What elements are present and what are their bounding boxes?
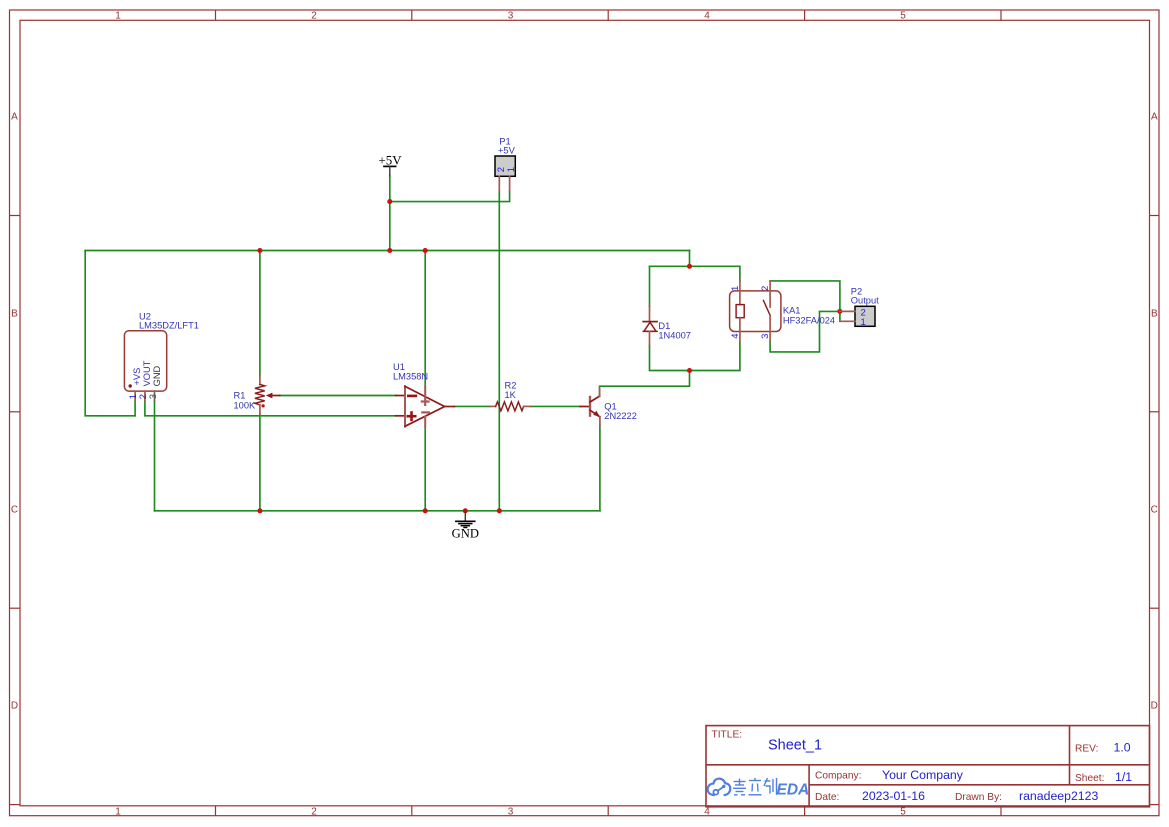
U1 non-inverting input pin (396, 415, 405, 417)
KA1 pin 4 (coil) (739, 318, 741, 342)
svg-text:Output: Output (851, 295, 879, 305)
svg-text:Q1: Q1 (604, 401, 616, 411)
KA1 pin 2 (contact) (769, 281, 771, 307)
junction R1 top bus (257, 248, 262, 253)
svg-text:B: B (1151, 309, 1158, 320)
wire relay pin3 loop (770, 311, 840, 352)
svg-text:2N2222: 2N2222 (604, 411, 637, 421)
P1 pin 1 (509, 176, 511, 191)
potentiometer R1 100K (234, 375, 280, 414)
svg-text:1: 1 (115, 11, 121, 22)
sensor U2 LM35DZ/LFT1 (124, 311, 199, 401)
wire Q1 collector to relay junction (600, 371, 690, 397)
svg-text:GND: GND (452, 526, 479, 540)
junction GND rail (463, 508, 468, 513)
svg-text:5: 5 (900, 11, 906, 22)
R1 zigzag body (255, 385, 265, 405)
KA1 body outline (730, 291, 781, 332)
wire op-amp output to R2 (454, 405, 490, 407)
svg-text:Date:: Date: (815, 792, 839, 803)
R2 zigzag body (496, 402, 524, 411)
svg-text:4: 4 (704, 807, 710, 818)
KA1 switch blade (763, 300, 770, 315)
wire P1 pin2 to ground rail (498, 191, 500, 511)
junction relay bottom bar (687, 368, 692, 373)
U1 plus input marker (408, 413, 415, 420)
junction +5V bus (387, 248, 392, 253)
svg-text:Sheet:: Sheet: (1075, 773, 1104, 784)
svg-text:D: D (1151, 701, 1158, 712)
ground GND symbol (452, 511, 479, 540)
Q1 base bar (589, 397, 591, 416)
wire +5V to P1 pin1 (390, 191, 510, 201)
svg-text:+5V: +5V (498, 145, 516, 155)
svg-text:A: A (1151, 112, 1158, 123)
svg-text:REV:: REV: (1075, 744, 1098, 755)
wire +5V bus horizontal (85, 250, 689, 252)
U1 triangle body (404, 386, 406, 426)
relay KA1 HF32FA/024 (730, 281, 836, 341)
svg-text:A: A (11, 112, 18, 123)
svg-text:+VS: +VS (132, 368, 142, 386)
wire op-amp V- to rail (424, 426, 426, 511)
Q1 emitter pin (599, 417, 601, 426)
svg-text:Sheet_1: Sheet_1 (768, 738, 822, 754)
svg-text:EDA: EDA (777, 782, 810, 799)
+5V bar (384, 165, 396, 167)
wire R1 wiper to op-amp minus input (280, 395, 396, 397)
svg-text:ranadeep2123: ranadeep2123 (1019, 789, 1098, 803)
wire diode-relay top bar right (690, 266, 740, 281)
svg-text:+5V: +5V (378, 152, 402, 167)
wire R1 bottom to rail (259, 415, 261, 511)
svg-text:3: 3 (508, 11, 514, 22)
svg-text:4: 4 (730, 334, 741, 339)
P1 pin 2 (498, 176, 500, 191)
U1 minus input marker (408, 395, 416, 398)
svg-text:U1: U1 (393, 362, 405, 372)
U1 V- power pin (424, 417, 426, 427)
svg-text:2: 2 (311, 807, 317, 818)
title block (706, 726, 1150, 807)
U1 output pin (445, 406, 455, 408)
junction P1 pin2 rail (497, 508, 502, 513)
svg-text:C: C (11, 505, 18, 516)
svg-text:R1: R1 (234, 390, 246, 400)
wire +5V symbol drop (389, 176, 391, 251)
svg-text:3: 3 (508, 807, 514, 818)
KA1 pin 1 (coil) (739, 281, 741, 305)
wire Q1 emitter to rail (599, 426, 601, 511)
R1 wiper arrow (266, 393, 273, 399)
svg-text:1N4007: 1N4007 (658, 331, 691, 341)
wire D1 bottom bar (650, 341, 740, 370)
P2 pin 2 (840, 310, 855, 312)
logo JLCEDA (708, 779, 731, 795)
svg-text:Drawn By:: Drawn By: (955, 792, 1002, 803)
wire U2 pin3 to ground rail (154, 401, 156, 511)
R1 pin dot (262, 404, 265, 407)
svg-text:2: 2 (760, 286, 771, 291)
svg-text:KA1: KA1 (783, 306, 801, 316)
U2 body (124, 331, 166, 391)
wire U2 pin2 to op-amp plus input (145, 401, 396, 416)
svg-text:1K: 1K (505, 390, 517, 400)
junction +5V link (387, 199, 392, 204)
wire left rail vertical (85, 251, 135, 416)
wire ground rail horizontal (155, 510, 600, 512)
U2 pin 2 (VOUT) (144, 391, 146, 401)
wire D1 top (649, 266, 651, 306)
svg-text:D: D (11, 701, 18, 712)
P2 pin 1 (840, 320, 855, 322)
U1 inverting input pin (396, 395, 405, 397)
svg-text:1: 1 (861, 317, 866, 328)
wire U2 pin1 drop (134, 401, 136, 416)
P2 body (855, 306, 875, 326)
junction op-amp V+ bus (423, 248, 428, 253)
wire bus drop to diode-relay top bar (650, 251, 690, 267)
R2 right lead (524, 405, 531, 407)
diode D1 1N4007 (643, 306, 691, 345)
Q1 emitter stroke with arrow (590, 410, 600, 417)
svg-text:2023-01-16: 2023-01-16 (862, 789, 925, 803)
svg-text:D1: D1 (658, 321, 670, 331)
Q1 collector stroke (590, 396, 599, 402)
junction dots (257, 199, 842, 513)
U1 V+ power pin (424, 386, 426, 397)
wire R2 to Q1 base (531, 405, 581, 407)
wire op-amp V+ from bus (424, 251, 426, 387)
wire relay pin2 to P2 drop (770, 281, 840, 321)
svg-text:1.0: 1.0 (1114, 741, 1131, 755)
svg-text:3: 3 (760, 334, 771, 339)
D1 anode pin (649, 331, 651, 345)
svg-text:GND: GND (152, 365, 162, 386)
junction P2 node (837, 309, 842, 314)
logo text 嘉立创EDA (733, 778, 777, 795)
connector P1 +5V (495, 136, 517, 191)
svg-text:TITLE:: TITLE: (712, 730, 743, 741)
op-amp U1 LM358N (393, 362, 454, 427)
Q1 base pin (580, 406, 590, 408)
D1 cathode pin (649, 306, 651, 321)
svg-text:LM35DZ/LFT1: LM35DZ/LFT1 (139, 321, 199, 331)
svg-text:1: 1 (506, 167, 517, 172)
svg-text:100K: 100K (234, 400, 257, 410)
KA1 coil element (736, 305, 744, 318)
svg-text:VOUT: VOUT (142, 360, 152, 386)
U1 power polarity markers (422, 398, 429, 412)
svg-text:4: 4 (704, 11, 710, 22)
D1 anode triangle (644, 322, 656, 331)
wire R1 top (259, 251, 261, 376)
U2 pin 1 marker dot (129, 384, 132, 387)
junction relay top bar (687, 264, 692, 269)
U2 pin 1 (+VS) (134, 391, 136, 401)
svg-text:5: 5 (900, 807, 906, 818)
svg-text:3: 3 (148, 394, 159, 399)
svg-text:1: 1 (730, 286, 741, 291)
R1 bottom lead (259, 405, 261, 415)
connector P2 Output (840, 286, 879, 328)
D1 cathode bar (643, 321, 657, 323)
R1 top lead (259, 375, 261, 384)
svg-text:B: B (11, 309, 18, 320)
transistor Q1 2N2222 (580, 387, 637, 426)
R2 left lead (490, 405, 496, 407)
svg-text:1: 1 (115, 807, 121, 818)
svg-text:Your Company: Your Company (882, 768, 964, 782)
resistor R2 1K (490, 381, 531, 411)
svg-text:2: 2 (311, 11, 317, 22)
power +5V symbol (378, 152, 402, 176)
P1 body (495, 156, 515, 176)
svg-text:LM358N: LM358N (393, 371, 428, 381)
KA1 pin 3 (common) (769, 316, 771, 342)
svg-text:HF32FA/024: HF32FA/024 (783, 316, 835, 326)
Q1 collector pin (599, 387, 601, 396)
svg-text:C: C (1151, 505, 1158, 516)
junction R1 bottom rail (257, 508, 262, 513)
svg-text:Company:: Company: (815, 771, 861, 782)
U2 pin 3 (GND) (154, 391, 156, 401)
junction op-amp V- rail (423, 508, 428, 513)
svg-text:1/1: 1/1 (1115, 770, 1132, 784)
